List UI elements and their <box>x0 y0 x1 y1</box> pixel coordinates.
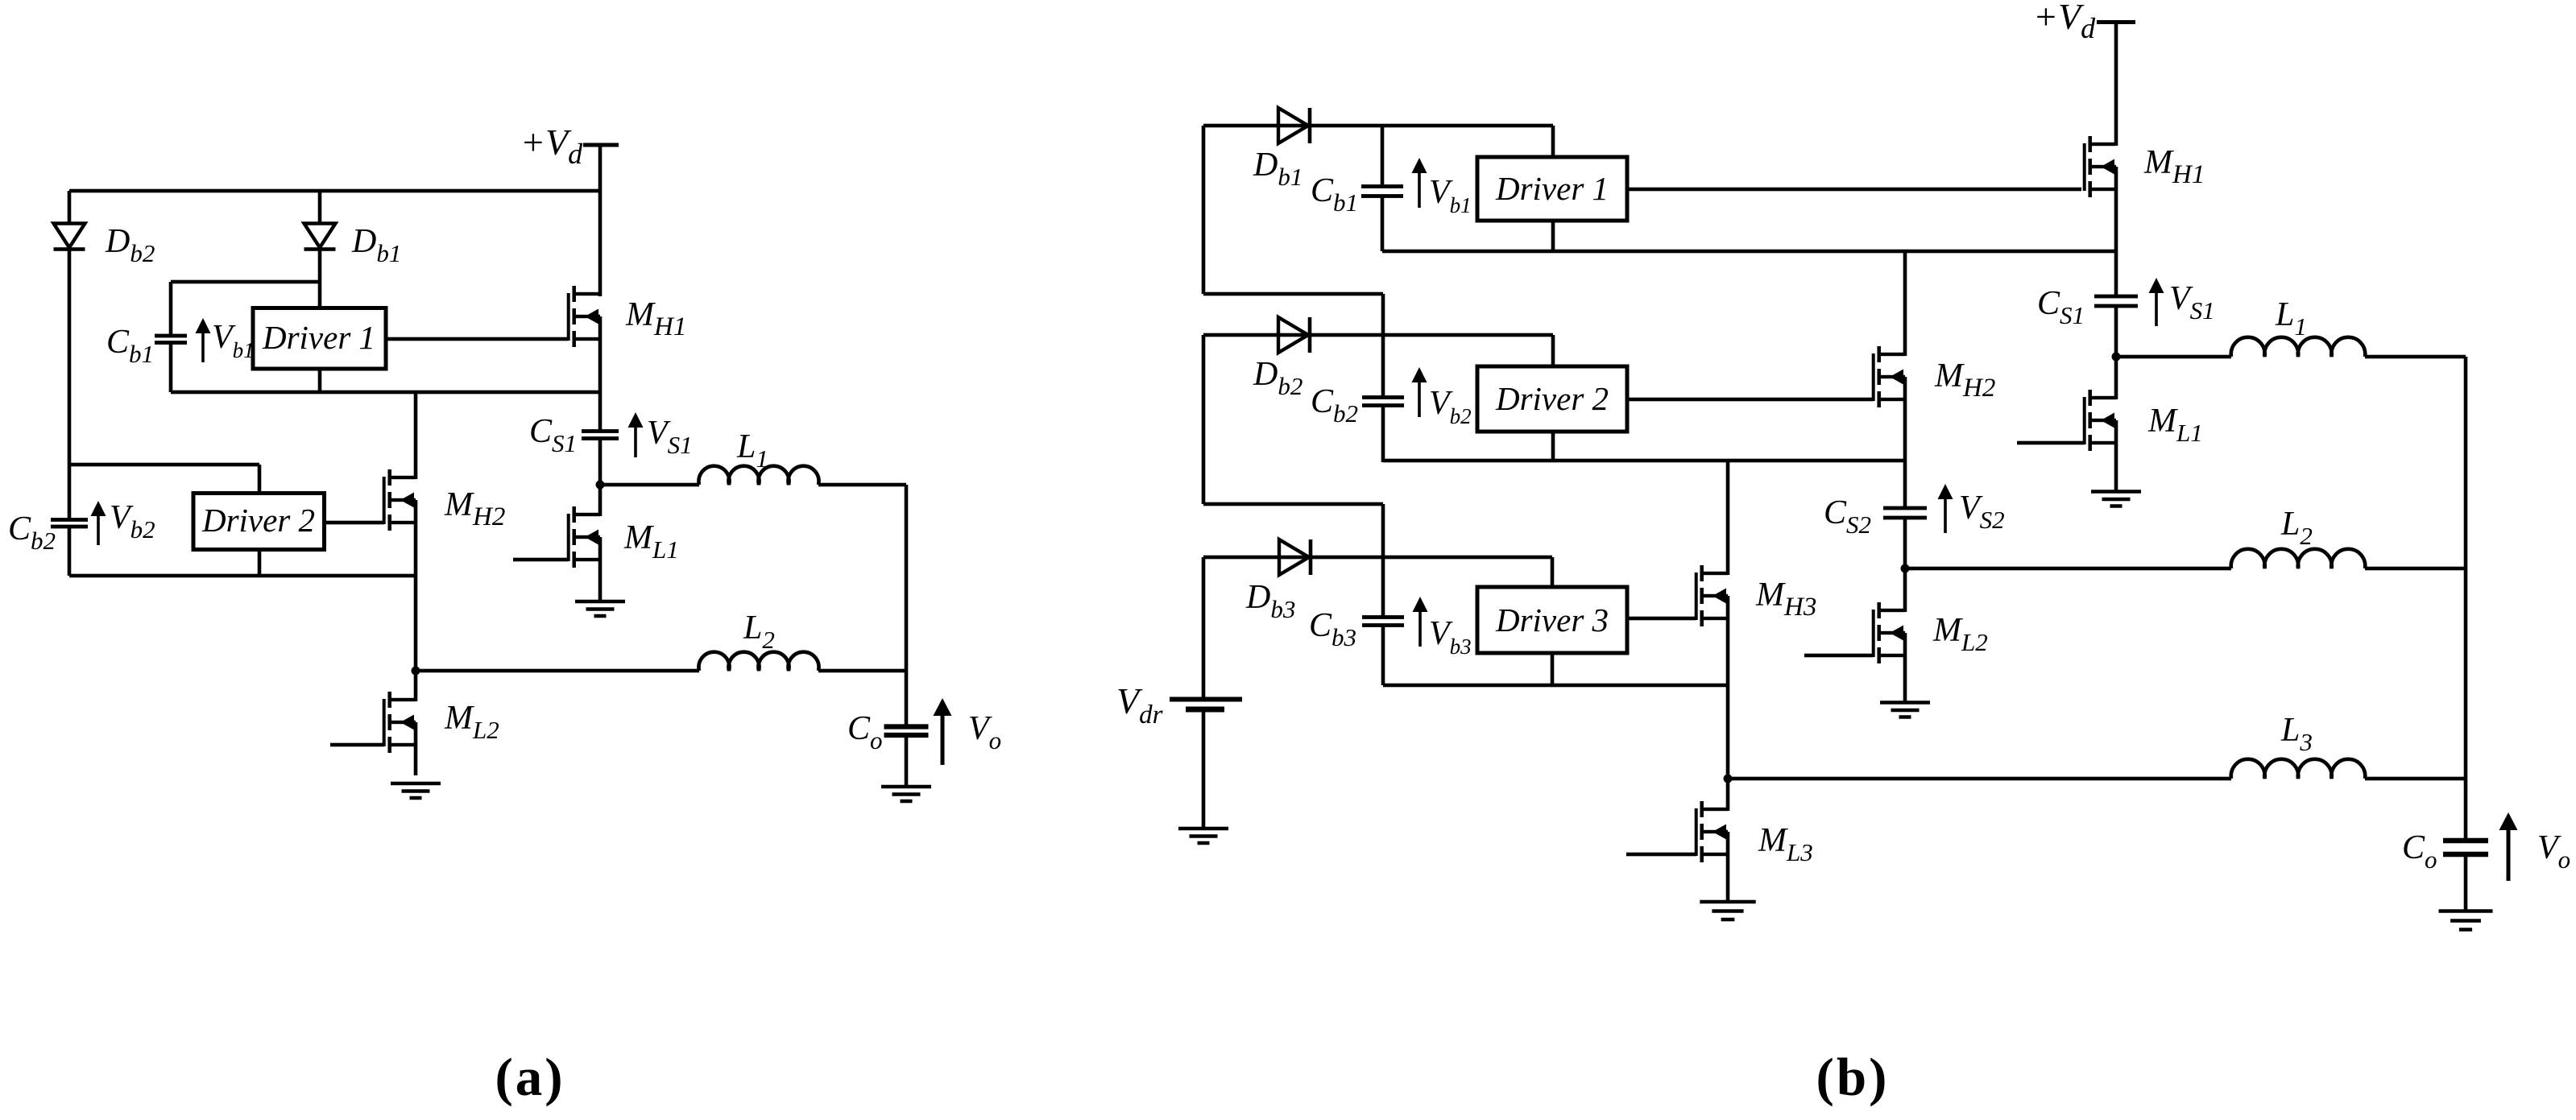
svg-text:ML1: ML1 <box>2147 403 2203 447</box>
svg-text:Co: Co <box>847 710 883 754</box>
svg-text:Driver 2: Driver 2 <box>201 502 315 539</box>
svg-text:Driver 3: Driver 3 <box>1495 601 1609 639</box>
svg-text:Cb2: Cb2 <box>8 510 56 555</box>
svg-text:CS2: CS2 <box>1824 494 1871 539</box>
svg-text:Driver 2: Driver 2 <box>1495 380 1609 417</box>
svg-text:MH1: MH1 <box>2143 144 2205 189</box>
svg-text:Vb2: Vb2 <box>1429 385 1472 428</box>
svg-text:Vdr: Vdr <box>1116 680 1163 729</box>
svg-text:Db2: Db2 <box>1253 356 1302 400</box>
svg-text:ML2: ML2 <box>444 700 499 744</box>
svg-text:+Vd: +Vd <box>520 122 583 170</box>
svg-text:L3: L3 <box>2280 712 2313 756</box>
svg-text:Db1: Db1 <box>351 223 401 267</box>
svg-text:ML2: ML2 <box>1932 612 1988 656</box>
svg-text:CS1: CS1 <box>529 413 577 457</box>
svg-text:VS1: VS1 <box>647 415 693 459</box>
svg-text:VS1: VS1 <box>2169 280 2215 324</box>
svg-text:Db3: Db3 <box>1245 579 1295 623</box>
svg-text:Cb1: Cb1 <box>106 324 154 368</box>
svg-text:Co: Co <box>2402 829 2437 874</box>
svg-text:+Vd: +Vd <box>2033 0 2096 44</box>
svg-text:Driver 1: Driver 1 <box>262 319 375 356</box>
svg-text:Driver 1: Driver 1 <box>1495 170 1609 207</box>
svg-text:L2: L2 <box>743 610 775 654</box>
svg-text:Vo: Vo <box>2537 829 2570 874</box>
svg-text:Vb1: Vb1 <box>1429 174 1472 217</box>
svg-text:MH2: MH2 <box>1934 357 1995 403</box>
svg-text:L1: L1 <box>2275 296 2307 341</box>
svg-text:ML1: ML1 <box>623 519 679 564</box>
svg-text:L2: L2 <box>2280 506 2313 550</box>
svg-text:Vo: Vo <box>968 710 1001 754</box>
svg-text:(a): (a) <box>495 1048 565 1107</box>
svg-text:Db1: Db1 <box>1253 147 1302 191</box>
svg-text:Vb1: Vb1 <box>212 319 255 362</box>
svg-text:CS1: CS1 <box>2037 285 2085 329</box>
svg-text:MH3: MH3 <box>1755 577 1816 622</box>
svg-text:Cb3: Cb3 <box>1309 607 1356 651</box>
svg-text:MH2: MH2 <box>444 486 505 531</box>
svg-text:MH1: MH1 <box>625 296 686 341</box>
svg-text:Vb2: Vb2 <box>110 499 155 543</box>
svg-text:VS2: VS2 <box>1959 490 2005 534</box>
svg-text:(b): (b) <box>1816 1048 1890 1107</box>
svg-text:Cb2: Cb2 <box>1311 383 1358 428</box>
svg-text:Db2: Db2 <box>105 223 155 267</box>
svg-text:ML3: ML3 <box>1758 822 1813 866</box>
svg-text:Vb3: Vb3 <box>1429 615 1472 659</box>
svg-text:Cb1: Cb1 <box>1311 172 1358 217</box>
